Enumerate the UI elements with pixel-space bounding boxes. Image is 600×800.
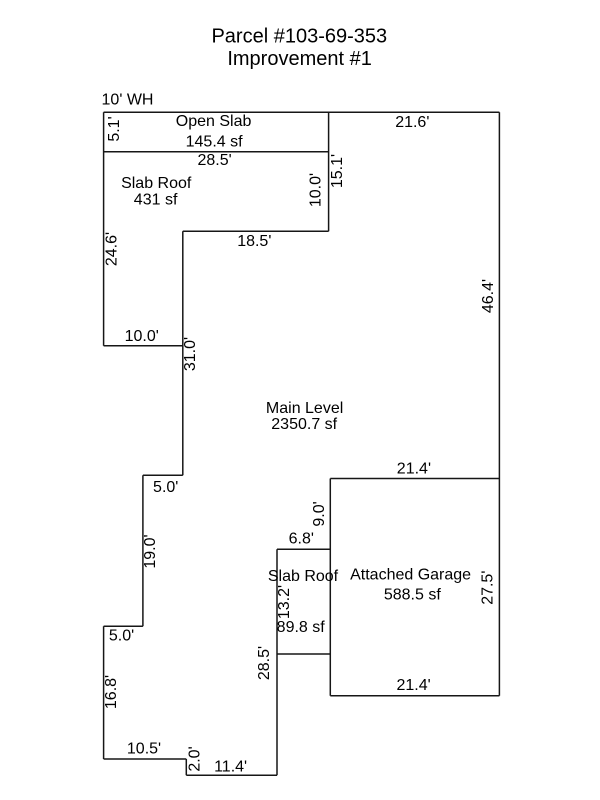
svg-text:9.0': 9.0' xyxy=(311,501,328,526)
svg-text:10' WH: 10' WH xyxy=(102,92,154,109)
svg-text:11.4': 11.4' xyxy=(214,758,247,775)
svg-text:18.5': 18.5' xyxy=(237,233,271,250)
svg-text:46.4': 46.4' xyxy=(480,279,497,313)
svg-text:431 sf: 431 sf xyxy=(134,192,178,209)
svg-text:19.0': 19.0' xyxy=(142,534,159,568)
svg-text:Slab Roof: Slab Roof xyxy=(268,568,339,585)
svg-text:31.0': 31.0' xyxy=(182,337,199,371)
svg-text:21.6': 21.6' xyxy=(395,114,429,131)
svg-text:Main Level: Main Level xyxy=(266,400,343,417)
svg-text:10.0': 10.0' xyxy=(125,328,159,345)
svg-text:Slab Roof: Slab Roof xyxy=(121,175,192,192)
svg-text:10.5': 10.5' xyxy=(127,741,161,758)
svg-text:5.0': 5.0' xyxy=(109,628,134,645)
svg-text:28.5': 28.5' xyxy=(256,646,273,680)
svg-text:24.6': 24.6' xyxy=(103,232,120,266)
svg-text:28.5': 28.5' xyxy=(197,152,231,169)
svg-text:5.0': 5.0' xyxy=(153,479,178,496)
svg-text:13.2': 13.2' xyxy=(276,585,293,619)
svg-text:6.8': 6.8' xyxy=(289,531,314,548)
svg-text:Parcel #103-69-353: Parcel #103-69-353 xyxy=(211,26,387,48)
svg-text:145.4 sf: 145.4 sf xyxy=(186,133,243,150)
svg-text:Attached Garage: Attached Garage xyxy=(350,567,471,584)
svg-text:Improvement #1: Improvement #1 xyxy=(227,48,372,70)
svg-text:27.5': 27.5' xyxy=(480,571,497,605)
svg-text:10.0': 10.0' xyxy=(308,173,325,207)
svg-text:2.0': 2.0' xyxy=(187,746,204,771)
svg-text:5.1': 5.1' xyxy=(106,116,123,141)
svg-text:16.8': 16.8' xyxy=(103,675,120,709)
svg-text:588.5 sf: 588.5 sf xyxy=(384,587,441,604)
svg-text:21.4': 21.4' xyxy=(397,461,431,478)
svg-text:89.8 sf: 89.8 sf xyxy=(277,619,326,636)
svg-text:21.4': 21.4' xyxy=(396,677,430,694)
svg-text:2350.7 sf: 2350.7 sf xyxy=(271,416,337,433)
svg-text:15.1': 15.1' xyxy=(329,154,346,188)
svg-text:Open Slab: Open Slab xyxy=(176,113,252,130)
